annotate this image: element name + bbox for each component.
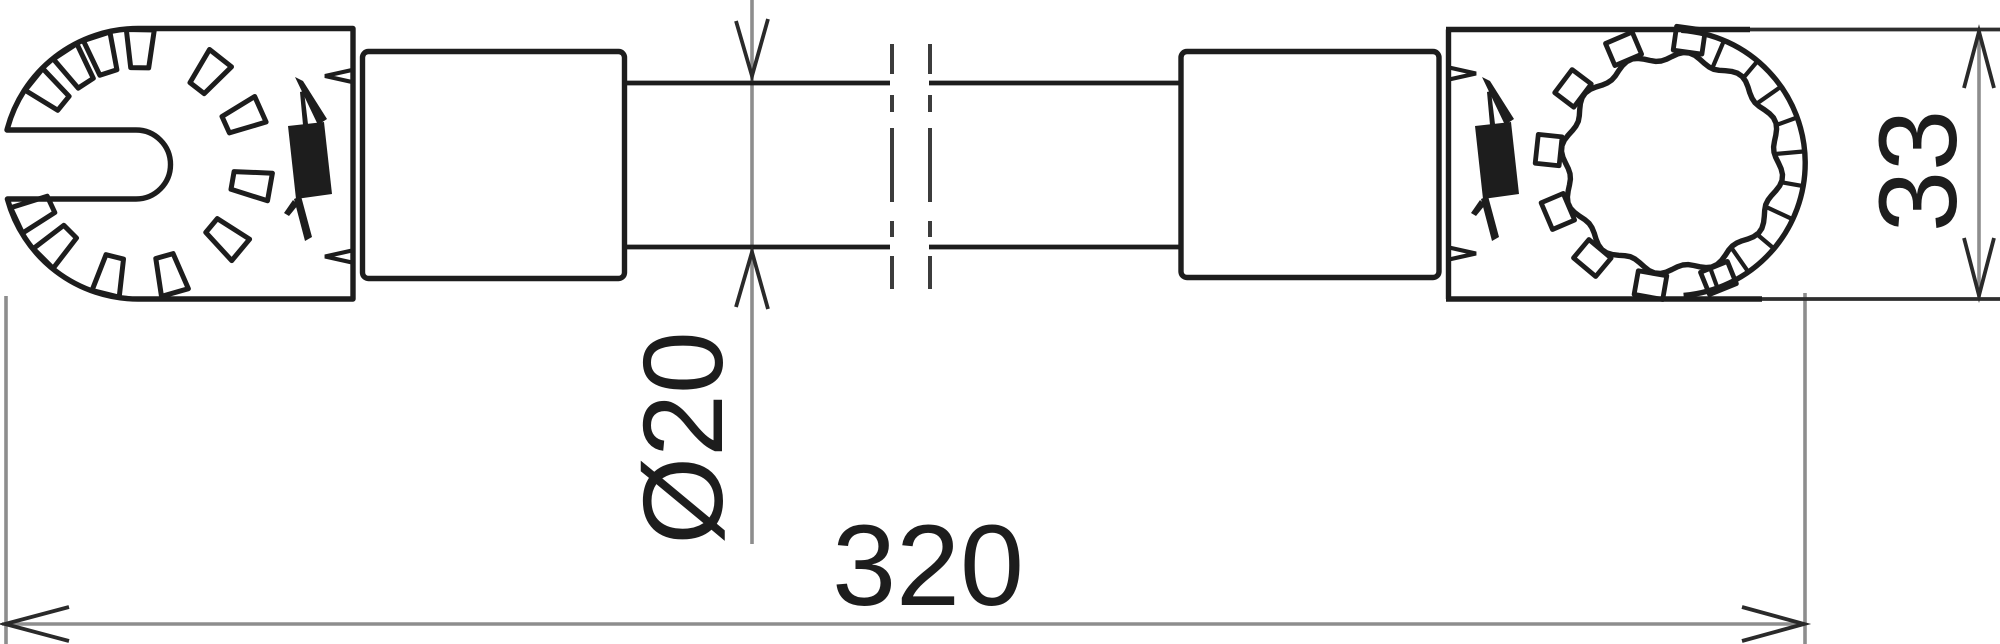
svg-text:Ø20: Ø20 bbox=[620, 331, 746, 545]
svg-text:320: 320 bbox=[832, 502, 1024, 630]
svg-text:33: 33 bbox=[1857, 110, 1980, 232]
